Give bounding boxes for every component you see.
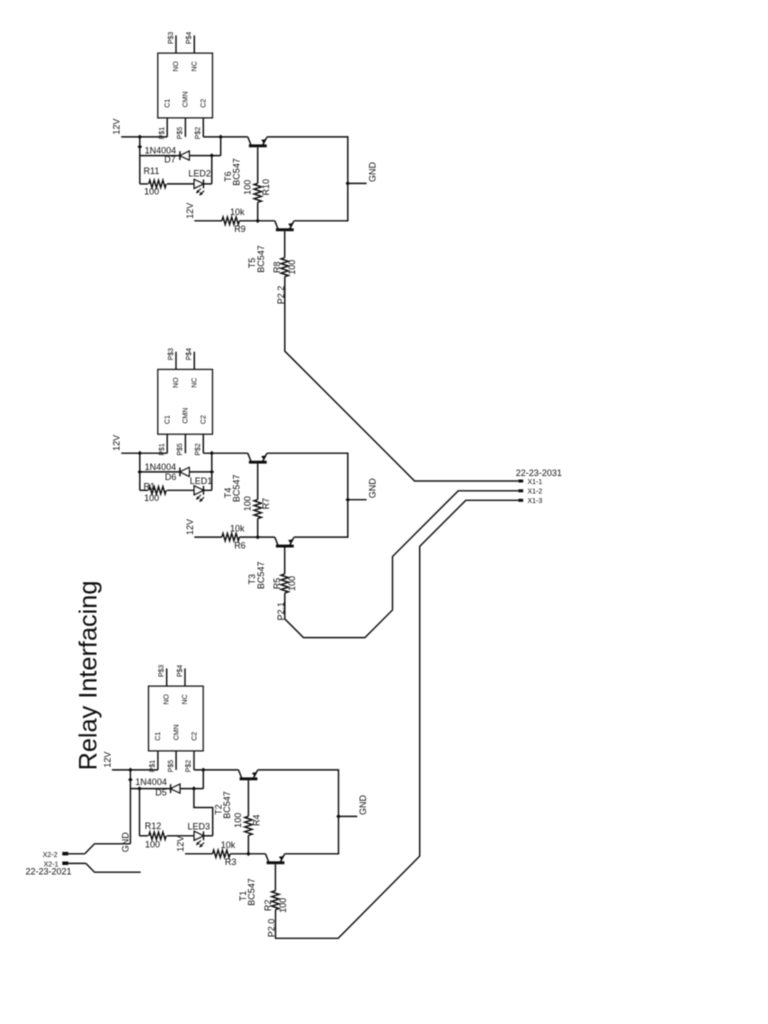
svg-text:12V: 12V (112, 119, 122, 135)
svg-text:12V: 12V (185, 519, 195, 535)
svg-text:NC: NC (192, 61, 199, 71)
svg-text:R5: R5 (272, 578, 282, 590)
svg-text:100: 100 (287, 260, 297, 275)
svg-text:C1: C1 (165, 415, 172, 424)
svg-text:R3: R3 (225, 857, 237, 867)
svg-text:100: 100 (144, 493, 159, 503)
svg-text:R12: R12 (145, 821, 162, 831)
svg-text:D6: D6 (165, 472, 177, 482)
svg-text:10k: 10k (230, 523, 245, 533)
svg-text:P$3: P$3 (168, 32, 175, 45)
svg-text:C2: C2 (201, 415, 208, 424)
svg-text:BC547: BC547 (246, 878, 256, 906)
svg-text:BC547: BC547 (222, 791, 232, 819)
svg-text:BC547: BC547 (231, 475, 241, 503)
svg-text:P$2: P$2 (186, 760, 193, 773)
svg-text:10k: 10k (221, 840, 236, 850)
svg-text:R1: R1 (144, 481, 156, 491)
svg-text:X1-1: X1-1 (528, 479, 543, 486)
svg-text:1N4004: 1N4004 (135, 777, 167, 787)
svg-text:P$4: P$4 (186, 348, 193, 361)
svg-text:C2: C2 (191, 732, 198, 741)
svg-text:P$4: P$4 (186, 32, 193, 45)
svg-text:X2-2: X2-2 (43, 852, 58, 859)
svg-text:C1: C1 (165, 99, 172, 108)
svg-text:R6: R6 (234, 540, 246, 550)
svg-text:100: 100 (278, 898, 288, 913)
svg-text:BC547: BC547 (256, 562, 266, 590)
svg-text:P$4: P$4 (177, 665, 184, 678)
svg-text:22-23-2031: 22-23-2031 (516, 468, 562, 478)
svg-text:10k: 10k (230, 207, 245, 217)
svg-text:1N4004: 1N4004 (145, 462, 177, 472)
svg-text:12V: 12V (175, 836, 185, 852)
svg-text:22-23-2021: 22-23-2021 (26, 867, 72, 877)
svg-text:P$5: P$5 (177, 127, 184, 140)
svg-text:R9: R9 (234, 224, 246, 234)
svg-text:CMN: CMN (183, 91, 190, 107)
svg-text:Relay Interfacing: Relay Interfacing (75, 581, 103, 771)
svg-text:LED3: LED3 (188, 822, 211, 832)
svg-text:D7: D7 (164, 154, 176, 164)
svg-text:P$5: P$5 (168, 760, 175, 773)
svg-text:NO: NO (173, 61, 180, 72)
svg-text:100: 100 (242, 180, 252, 195)
svg-text:P$2: P$2 (195, 127, 202, 140)
svg-text:12V: 12V (112, 435, 122, 451)
svg-text:R2: R2 (263, 900, 273, 912)
svg-text:CMN: CMN (183, 408, 190, 424)
svg-text:NC: NC (192, 378, 199, 388)
svg-text:100: 100 (242, 496, 252, 511)
svg-text:X1-3: X1-3 (528, 498, 543, 505)
svg-text:100: 100 (233, 813, 243, 828)
svg-text:D5: D5 (155, 787, 167, 797)
svg-text:NO: NO (164, 694, 171, 705)
svg-text:CMN: CMN (173, 724, 180, 740)
svg-text:P$5: P$5 (177, 443, 184, 456)
svg-text:R11: R11 (144, 166, 160, 176)
svg-text:P$3: P$3 (159, 665, 166, 678)
svg-text:P$3: P$3 (168, 348, 175, 361)
svg-text:BC547: BC547 (256, 245, 266, 273)
svg-text:R8: R8 (272, 261, 282, 273)
svg-text:P$2: P$2 (195, 443, 202, 456)
svg-text:12V: 12V (185, 203, 195, 219)
svg-text:NO: NO (173, 377, 180, 388)
svg-text:R7: R7 (261, 498, 271, 510)
svg-text:LED1: LED1 (190, 476, 213, 486)
svg-text:100: 100 (145, 840, 160, 850)
svg-text:GND: GND (121, 832, 131, 853)
svg-text:GND: GND (367, 162, 377, 183)
svg-text:100: 100 (287, 576, 297, 591)
svg-text:BC547: BC547 (231, 158, 241, 186)
svg-text:GND: GND (367, 478, 377, 499)
svg-text:C2: C2 (201, 99, 208, 108)
svg-text:X1-2: X1-2 (528, 489, 543, 496)
svg-text:100: 100 (144, 187, 159, 197)
svg-text:12V: 12V (102, 752, 112, 768)
svg-text:LED2: LED2 (188, 169, 211, 179)
svg-text:R4: R4 (251, 815, 261, 827)
svg-text:R10: R10 (261, 179, 271, 196)
svg-text:C1: C1 (155, 732, 162, 741)
svg-text:GND: GND (358, 795, 368, 816)
svg-text:NC: NC (182, 694, 189, 704)
